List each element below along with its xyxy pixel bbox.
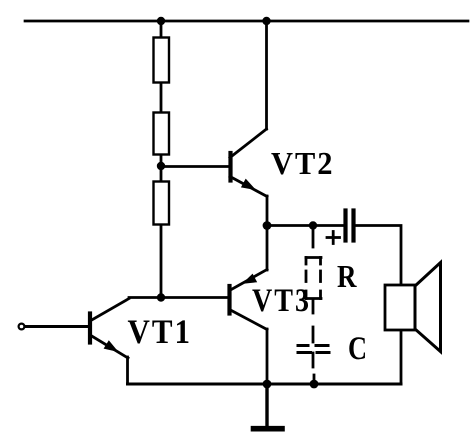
wire VT1 emitter down (126, 357, 129, 384)
junction: bottom rail / dashed C (310, 380, 319, 389)
label VT1 (128, 320, 189, 343)
label R (337, 266, 356, 287)
capacitor C (output, polarized) (343, 211, 347, 241)
transistor VT1 (88, 314, 92, 343)
junction: rail / VT2 collector (262, 17, 270, 25)
power rail (25, 20, 468, 23)
resistor R2 (154, 113, 170, 155)
speaker (400, 330, 403, 384)
junction: VT3 collector / ground (263, 380, 272, 389)
dashed resistor R (bootstrap, shown dashed) (306, 256, 321, 259)
wire input to VT1 base (25, 325, 89, 328)
transistor VT2 (228, 153, 232, 181)
junction: divider / VT1 collector / VT3 base (157, 293, 165, 301)
wire R2 to R3 (160, 155, 163, 181)
wire node A to dashed network stub (312, 226, 315, 248)
junction: divider / VT2 base (157, 162, 165, 170)
label VT3 (252, 289, 308, 311)
wire VT2 collector to rail (265, 21, 268, 129)
wire VT2 emitter to node A (266, 196, 269, 226)
junction: output wire / dashed R (309, 221, 317, 229)
node A junction (VT2 emitter / VT3 emitter / output) (263, 221, 272, 230)
wire VT3 emitter to node A (266, 226, 269, 271)
wire capacitor to speaker (356, 226, 402, 286)
input terminal (19, 324, 25, 330)
resistor R3 (154, 182, 170, 225)
bottom rail wire (128, 383, 402, 386)
wire VT2 base (161, 165, 229, 168)
wire R1 to R2 (160, 83, 163, 112)
ground (265, 384, 268, 427)
plus sign of capacitor (327, 236, 340, 239)
resistor R1 (154, 38, 170, 83)
wire rail to resistor chain (160, 21, 163, 37)
wire VT1/VT3 base link (129, 296, 228, 299)
label C (349, 337, 365, 359)
wire node A to capacitor (267, 224, 344, 227)
transistor VT3 (227, 286, 231, 314)
dashed capacitor C (shown dashed) (312, 327, 315, 342)
label VT2 (271, 153, 331, 175)
junction: rail / divider (157, 17, 165, 25)
wire R3 to lower divider node (160, 225, 163, 298)
wire VT3 collector to bottom rail (266, 329, 269, 384)
